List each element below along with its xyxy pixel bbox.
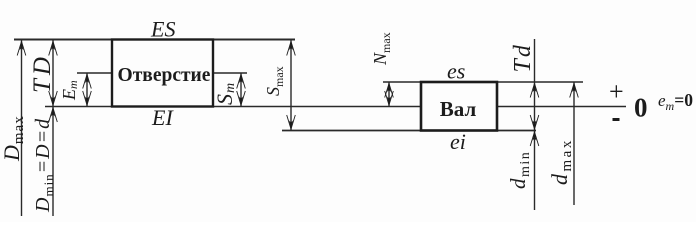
svg-text:ei: ei (450, 129, 466, 154)
wire es line right extension (497, 81, 583, 83)
wire ei line left of shaft box (282, 130, 421, 132)
svg-text:TD: TD (29, 53, 56, 93)
dimension Smax arrow (290, 40, 292, 131)
wire ES line (upper deviation of hole) (14, 39, 295, 41)
node Dmax label (0, 115, 27, 162)
dimension Em arrow (86, 73, 88, 107)
svg-text:es: es (447, 59, 465, 84)
node Sm label (212, 82, 238, 105)
node minus sign (613, 118, 620, 121)
svg-text:em=0: em=0 (658, 90, 693, 113)
svg-text:Отверстие: Отверстие (118, 65, 211, 86)
wire Sm extension line right of hole box (213, 72, 247, 74)
wire ei line right extension (497, 130, 536, 132)
svg-text:+: + (609, 77, 624, 106)
svg-text:ES: ES (150, 17, 175, 42)
node dmin label (506, 151, 533, 189)
svg-text:Td: Td (510, 43, 536, 72)
wire zero line / EI level, left of shaft box (45, 106, 421, 108)
svg-text:0: 0 (634, 93, 648, 123)
node TD label (29, 53, 56, 93)
svg-text:Dmin=D=d: Dmin=D=d (32, 118, 56, 213)
node Nmax label (370, 32, 393, 66)
wire es line left extension (383, 81, 421, 83)
dimension TD / Dmin line (52, 40, 54, 216)
dimension Td / dmin line (534, 39, 536, 210)
dimension Sm arrow (240, 73, 242, 107)
svg-text:Вал: Вал (440, 97, 477, 121)
node Smax label (263, 66, 286, 96)
hole tolerance zone box (112, 40, 213, 107)
wire zero line, right of shaft box (497, 106, 626, 108)
dimension dmax line (573, 82, 575, 205)
node Td label (510, 43, 536, 72)
wire Em extension line left of hole box (77, 72, 112, 74)
dimension Nmax arrow (388, 82, 390, 107)
node Dmin=D=d label (32, 118, 56, 213)
dimension Dmax line (21, 40, 23, 216)
node Em label (59, 80, 80, 101)
svg-text:EI: EI (151, 105, 174, 130)
node dmax label (547, 138, 575, 185)
shaft tolerance zone box (421, 82, 497, 131)
